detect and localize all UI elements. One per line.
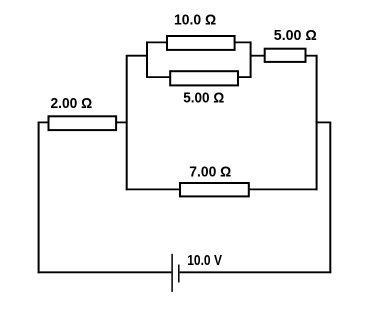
svg-text:5.00 Ω: 5.00 Ω (183, 89, 224, 106)
wire: horizontal jog at node B (316, 121, 332, 123)
wire: bottom conductor left of battery (38, 271, 172, 273)
resistor 10.0 ohm (167, 36, 235, 50)
wire: right inner vertical (5 ohm output down to 7 ohm loop) (316, 55, 318, 190)
wire: bottom conductor right of battery (180, 271, 332, 273)
resistor 5.00 ohm (parallel branch) (170, 71, 238, 85)
wire: left bus to 10 ohm resistor (146, 41, 167, 43)
svg-text:5.00 Ω: 5.00 Ω (274, 27, 317, 44)
svg-text:10.0 V: 10.0 V (187, 252, 222, 269)
label: 2.00 ohm (51, 95, 93, 112)
label: 7.00 ohm (189, 163, 231, 180)
wire: node A to parallel section left bus (127, 55, 148, 57)
wire: parallel section left bus (146, 41, 148, 78)
svg-text:7.00 Ω: 7.00 Ω (189, 163, 231, 180)
label: 5.00 ohm (series) (274, 27, 317, 44)
wire: right bus to 5 ohm series resistor (251, 55, 265, 57)
wire: 10 ohm resistor to right bus (235, 41, 252, 43)
label: 10.0 V (187, 252, 222, 269)
wire: 2 ohm resistor right stub (116, 121, 127, 123)
resistor 7.00 ohm (180, 183, 249, 196)
wire: left vertical conductor (38, 122, 40, 273)
resistor 5.00 ohm (series) (265, 49, 306, 62)
wire: 5 ohm series resistor to right corner (306, 55, 318, 57)
svg-text:2.00 Ω: 2.00 Ω (51, 95, 93, 112)
wire: parallel section right bus (250, 41, 252, 78)
wire: junction vertical at node A (126, 55, 128, 190)
wire: 2 ohm resistor left stub (38, 121, 49, 123)
battery 10.0 V long plate (171, 254, 173, 292)
battery 10.0 V short plate (178, 265, 180, 283)
wire: 5 ohm parallel resistor to right bus (238, 76, 252, 78)
wire: 7 ohm loop bottom conductor (126, 188, 318, 190)
wire: right outer vertical conductor (329, 122, 331, 273)
resistor 2.00 ohm (49, 116, 117, 130)
wire: left bus to 5 ohm parallel resistor (146, 76, 170, 78)
label: 10.0 ohm (174, 11, 216, 28)
label: 5.00 ohm (parallel branch) (183, 89, 224, 106)
svg-text:10.0 Ω: 10.0 Ω (174, 11, 216, 28)
